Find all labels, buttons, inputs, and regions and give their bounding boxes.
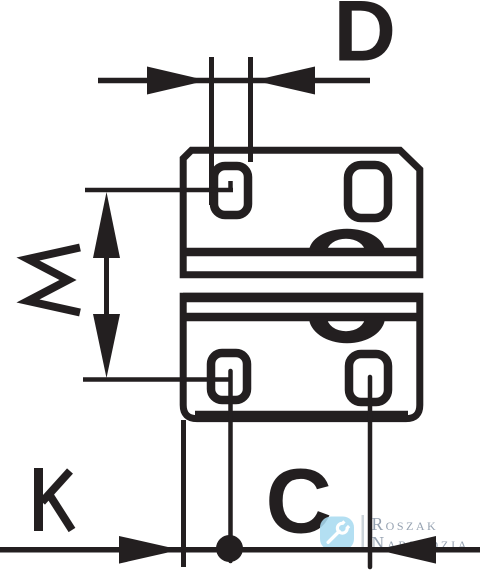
slot hole top-left	[214, 166, 248, 215]
boss arc top half	[309, 229, 385, 252]
dimension line D	[98, 78, 370, 84]
body top half inner line	[183, 248, 420, 257]
centerline from bottom-left hole	[228, 371, 233, 561]
extension line C	[368, 377, 373, 567]
body top half outline	[183, 150, 420, 275]
body bottom half top edge thick	[183, 293, 420, 303]
body bottom half bottom edge thick	[195, 411, 408, 422]
logo icon wrench	[325, 520, 351, 546]
dimension leader M top	[85, 188, 233, 193]
letter K	[39, 468, 73, 531]
node dot	[216, 535, 243, 562]
svg-text:Roszak: Roszak	[372, 514, 439, 534]
body bottom half outline	[183, 296, 420, 418]
leader end tick top	[228, 181, 233, 190]
slot hole top-right	[348, 165, 388, 218]
arrowhead M up	[93, 192, 120, 258]
arrowhead D right	[254, 67, 315, 95]
body bottom half inner line	[183, 313, 420, 322]
arrowhead bottom right-pointing	[119, 536, 180, 564]
boss arc bottom half	[309, 317, 385, 343]
extension line D right	[248, 57, 253, 162]
arrowhead D left	[147, 67, 207, 95]
letter M rotated	[28, 248, 80, 313]
slot hole bottom-left	[211, 353, 247, 400]
dimension M shaft	[104, 254, 109, 318]
dimension line K/C bottom	[0, 547, 480, 553]
logo icon blue squircle	[320, 517, 354, 551]
svg-text:D: D	[334, 0, 396, 80]
extension line left edge	[181, 420, 186, 567]
slot hole bottom-right	[349, 354, 388, 402]
dimension leader M bottom	[83, 377, 230, 382]
arrowhead bottom left-pointing	[377, 536, 436, 564]
extension line D left	[209, 57, 214, 205]
arrowhead M down	[93, 314, 120, 378]
logo separator bar	[362, 515, 365, 549]
